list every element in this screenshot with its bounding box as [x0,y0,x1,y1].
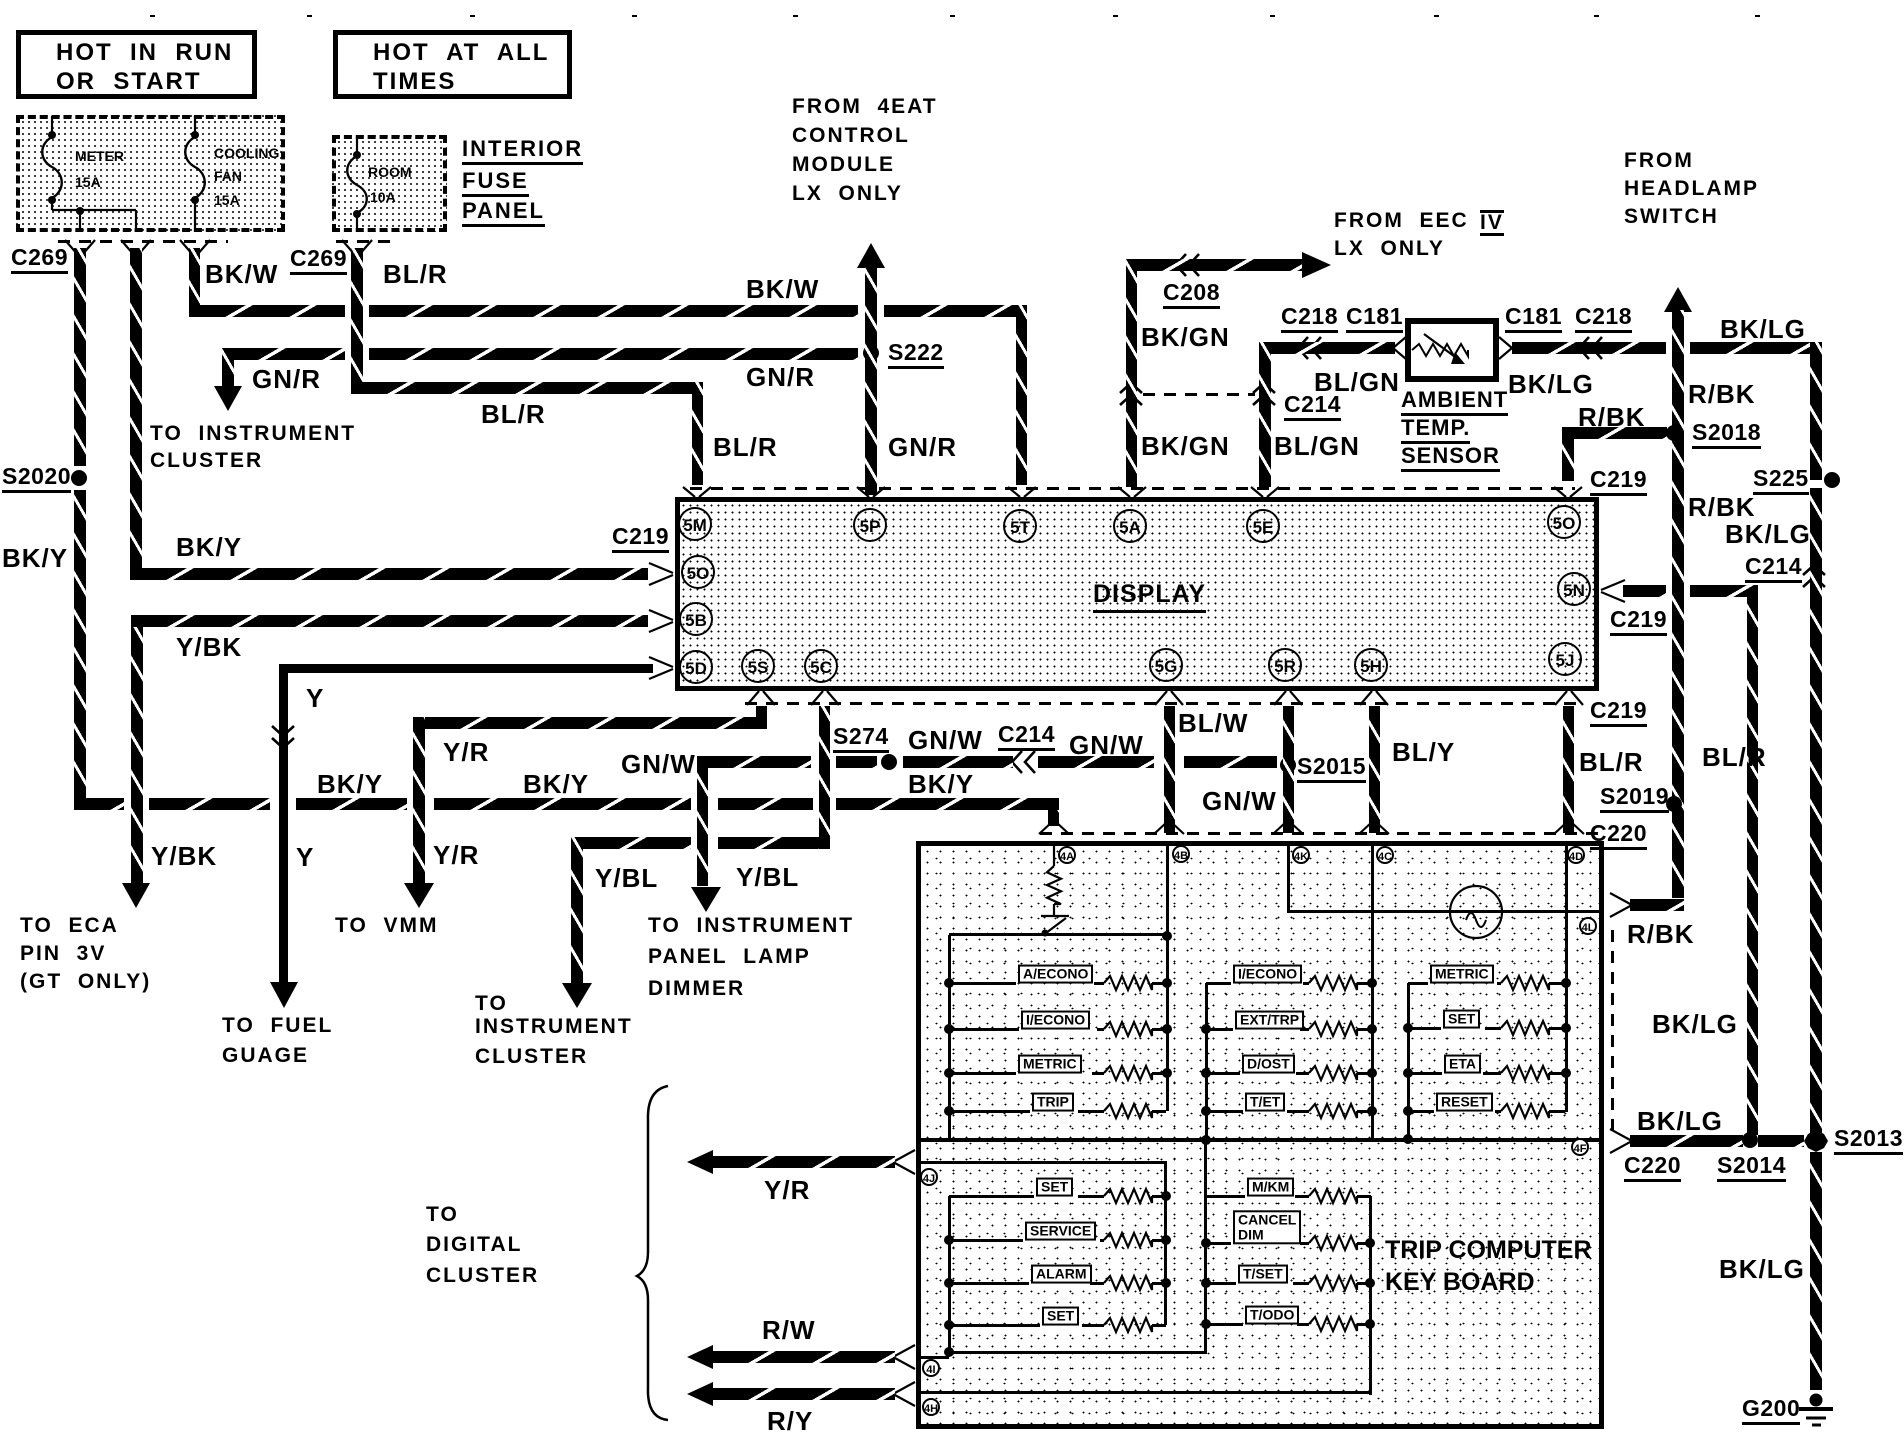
key button ETA [1444,1055,1481,1074]
keyboard section3 left rail [1407,983,1410,1139]
wire Y/BK from DISPLAY pin 5B [131,615,648,627]
wire Y/BL vertical to instrument cluster (arrow down) [571,837,583,983]
wire Y vertical to fuel gauge (arrow down) [279,673,288,982]
wire R/BK horizontal to DISPLAY pin 5O [1562,427,1667,439]
wire BK/LG below S2013 to ground [1810,1152,1822,1390]
keyboard rheostat (dimmer) under 4A [1053,846,1055,866]
keyboard pin 4K [1292,846,1310,864]
connector C269 label right [290,246,347,275]
key button D/OST [1242,1055,1295,1074]
title box HOT AT ALL TIMES [333,30,572,99]
arrow R/Y left to digital cluster [687,1382,713,1406]
arrow Y/BL down to panel lamp dimmer [691,887,721,912]
DISPLAY pin 5S [741,649,775,683]
arrow Y/R left to digital cluster [687,1150,713,1174]
DISPLAY pin 5D [679,650,713,684]
splice S225 dot [1824,472,1840,488]
DISPLAY pin 5P [853,508,887,542]
wire GN/W horizontal run [697,756,811,768]
wire BL/GN vertical to DISPLAY pin 5E [1259,342,1271,487]
keyboard right dashed connector line [1611,930,1614,1140]
keyboard 4K cell left edge [1287,846,1290,911]
keyboard lower section2 right rail [1369,1196,1372,1395]
key button TRIP [1032,1093,1074,1112]
brace to digital cluster [637,1086,668,1420]
fuse COOLING FAN 15A symbol [194,116,196,133]
keyboard 4J conductor [921,1161,1166,1164]
connector C218/C181 chevrons [1298,337,1308,359]
DISPLAY pin 5H [1354,648,1388,682]
wire GN/R horizontal run [222,348,345,360]
arrow Y/BL down to instrument cluster [562,983,592,1008]
key button SERVICE [1025,1222,1096,1241]
fuse panel box (dashed, stippled) [16,115,285,232]
key button I/ECONO [1233,965,1302,984]
connector C208 chevrons [1176,254,1186,276]
keyboard pin 4B [1172,845,1190,863]
key button CANCEL DIM [1233,1210,1301,1244]
key button I/ECONO [1021,1011,1090,1030]
DISPLAY pin 5R [1268,648,1302,682]
keyboard pin 4L [1579,917,1597,935]
thermistor symbol inside ambient sensor [1412,344,1468,356]
DISPLAY pin 5G [1149,648,1183,682]
keyboard junction dots [944,978,954,988]
key button METRIC [1018,1055,1082,1074]
wire BK/Y long horizontal run to keyboard 4A [74,798,124,810]
DISPLAY pin 5C [804,649,838,683]
wire BK/GN vertical to DISPLAY pin 5A [1126,259,1137,487]
title box HOT IN RUN OR START [16,30,257,99]
connector C218 chevron right of sensor [1579,337,1589,359]
wire BK/W drop to DISPLAY pin 5T [1016,305,1027,485]
wire BK/LG vertical right edge [1810,342,1822,480]
wire BK/W horizontal run [189,305,345,317]
label ROOM 10A [368,165,412,180]
key button SET [1443,1010,1480,1029]
splice S2013 node [1834,1126,1903,1155]
label METER 15A [75,149,124,164]
DISPLAY pin 5B [679,602,713,636]
fuse F3 ROOM terminal dots [353,151,361,159]
splice S274 dot [881,754,897,770]
key button SET [1036,1178,1073,1197]
splice S222 dot [863,345,879,361]
wire BL/R drop to DISPLAY pin 5M [692,382,703,485]
label TRIP COMPUTER KEY BOARD [1385,1237,1592,1264]
keyboard lower section1 right rail [1164,1161,1167,1325]
label COOLING FAN 15A [214,146,279,161]
connector C214 dashed link [1143,393,1255,396]
wire BL/R vertical from ROOM fuse [351,248,363,394]
wire BL/R vertical to S2014 [1747,597,1758,1135]
wire BK/GN horizontal to EEC (C208) [1126,259,1302,271]
fuse F1 terminal dots [48,131,56,139]
keyboard lower section1 left rail [948,1196,951,1354]
arrow GN/R up to 4EAT module [857,243,885,268]
wire Y/BK vertical to ECA (arrow down) [131,627,143,883]
splice S2018 dot [1666,425,1682,441]
label FROM HEADLAMP SWITCH [1624,150,1694,173]
keyboard cell divider / rail 4A-4B [1166,846,1169,1111]
wire BK/LG vertical below S225 [1810,488,1822,1140]
fuse ROOM 10A symbol [356,137,358,152]
fuse METER 15A symbol [51,116,53,133]
DISPLAY pin 5E [1246,509,1280,543]
keyboard top dashed connector line [1040,832,1603,835]
keyboard right connector funnels [1610,893,1632,905]
fuse panel box ROOM (dashed, stippled) [332,135,447,232]
label DISPLAY [1093,581,1206,613]
wire BL/GN horizontal to ambient temp sensor [1259,342,1395,354]
key button M/KM [1247,1178,1294,1197]
fuse F2 terminal dots [191,131,199,139]
wire from fuse to BK/Y display feed (vertical) [130,248,142,568]
splice S2015 dot [1280,757,1296,773]
key button METRIC [1430,965,1494,984]
DISPLAY pin 5T [1003,509,1037,543]
DISPLAY bottom dashed connector line [745,702,1578,705]
wire BK/Y stub into keyboard pin 4A [1048,810,1059,826]
component TRIP COMPUTER KEY BOARD box [916,841,1604,1429]
wire R/Y to digital cluster (arrow left) [712,1388,895,1400]
DISPLAY pin 5M [678,507,712,541]
splice S2013 octagon [1804,1130,1828,1152]
label FROM EEC IV LX ONLY [1334,210,1469,233]
component DISPLAY box [675,497,1599,691]
keyboard lower section2 left rail [1204,1139,1207,1352]
DISPLAY pin 5J [1548,642,1582,676]
DISPLAY pin 5N [1557,572,1591,606]
keyboard pot wiper line [949,933,1167,936]
wire BK/Y below S2020 [74,490,86,798]
keyboard pin 4D [1567,846,1585,864]
connector C269 label left [11,245,68,274]
keyboard pin 4H [922,1398,940,1416]
keyboard pin 4F [1571,1138,1589,1156]
DISPLAY top connector funnels C219 [683,487,695,497]
wire BK/LG from sensor to headlamp-switch net [1512,342,1666,354]
label FROM 4EAT CONTROL MODULE LX ONLY [792,96,938,119]
wire Y/R vertical to VMM (arrow down) [413,717,425,883]
connector C269 dashed strip [58,240,228,243]
wire BK/Y from METER fuse down (upper segment) [74,248,86,466]
wire BL/R horizontal run [351,382,692,394]
DISPLAY right connector funnel 5N [1601,580,1625,590]
DISPLAY pin 5A [1113,509,1147,543]
wire R/BK vertical (headlamp feed, arrow up) [1672,310,1684,898]
splice S2019 dot [1666,796,1682,812]
wire 5G to keyboard 4B [1164,706,1175,833]
DISPLAY top dashed connector line [690,487,1575,490]
arrow GN/R down to instrument cluster [214,386,242,411]
arrow Y/BK down to ECA [122,883,150,908]
DISPLAY pin 5O [681,555,715,589]
keyboard section2 left rail [1205,983,1208,1141]
wire GN/R vertical through S222 to DISPLAY pin 5P (arrow up to 4EAT) [865,265,877,495]
wire BK/LG from keyboard 4F to S2013 [1630,1135,1743,1147]
wire R/BK elbow into keyboard pin 4L [1630,899,1684,911]
keyboard divider 4B-4C rail [1371,846,1374,1139]
keyboard pin 4I [922,1359,940,1377]
key button A/ECONO [1018,965,1093,984]
matrix resistors [1104,976,1152,990]
keyboard divider 4C-4D rail [1565,846,1568,1112]
key button ALARM [1031,1265,1092,1284]
arrow Y down to fuel gauge [270,982,298,1008]
DISPLAY pin 5O [1547,505,1581,539]
label TO DIGITAL CLUSTER [426,1204,459,1227]
DISPLAY bottom connector funnels [747,691,759,705]
wire 5H to keyboard 4C [1369,706,1380,833]
splice S2020 dot [71,470,87,486]
ambient temp sensor box [1405,318,1499,382]
label INTERIOR FUSE PANEL [462,137,583,165]
wire BK/Y horizontal to DISPLAY pin 5O [130,568,648,580]
wire BK/W vertical from COOLING fuse [189,248,200,317]
wire Y/R to digital cluster (arrow left) [712,1156,895,1168]
keyboard pin 4A [1058,846,1076,864]
wire Y/BL drop to panel lamp dimmer (arrow down) [697,768,708,886]
wire Y/R from DISPLAY pin 5S [756,706,767,718]
ground symbol G200 [1810,1394,1823,1407]
keyboard lamp symbol [1450,886,1502,938]
keyboard section1 left rail [948,935,951,1139]
keyboard lower bus [949,1351,1207,1354]
keyboard lamp row line (4L net) [1287,910,1604,913]
wire GN/R elbow and arrow to instrument cluster [222,348,234,386]
keyboard 4H conductor [921,1391,1371,1394]
fuse panel connector funnels [65,240,78,255]
connector chevrons on Y wire [272,726,294,736]
sensor box connector funnels [1393,337,1406,348]
keyboard pin 4C [1376,846,1394,864]
DISPLAY left connector funnels [649,563,673,573]
wire 5R to keyboard 4K [1283,706,1294,833]
wire R/W to digital cluster (arrow left) [712,1351,895,1363]
wire BL/R from DISPLAY pin 5N [1623,585,1666,597]
key button T/ODO [1245,1306,1299,1325]
connector C214 chevron on BK/LG vertical [1803,565,1825,575]
connector C214 chevron on GN/W wire [1012,751,1022,773]
arrow BK/GN right to EEC (C208) [1302,252,1331,278]
keyboard top connector funnels [1039,822,1052,834]
wire BL/R from DISPLAY 5J to keyboard 4D [1563,706,1574,833]
keyboard left connector funnels [893,1150,915,1162]
keyboard 4I conductor step [946,1351,949,1359]
key button EXT/TRP [1235,1011,1304,1030]
arrow Y/R down to VMM [404,883,434,908]
wire Y solid from DISPLAY pin 5D [288,664,653,673]
label AMBIENT TEMP SENSOR [1401,388,1508,416]
wire Y/BL from DISPLAY pin 5C [819,706,830,849]
keyboard common bus (4F net) [921,1138,1601,1142]
key button T/SET [1238,1265,1288,1284]
keyboard pin 4J [920,1168,938,1186]
splice S2014 dot [1742,1132,1758,1148]
wire R/BK drop to display [1562,439,1574,481]
key button T/ET [1245,1093,1285,1112]
keyboard matrix row conductors [949,982,1016,985]
arrow R/BK up to headlamp switch [1664,287,1692,312]
arrow R/W left to digital cluster [687,1345,713,1369]
connector C214 chevrons on BK/GN wire [1120,383,1142,393]
ground G200 label [1742,1396,1800,1425]
connector C214 chevrons on BL/GN wire [1253,383,1275,393]
key button RESET [1436,1093,1493,1112]
key button SET [1042,1307,1079,1326]
